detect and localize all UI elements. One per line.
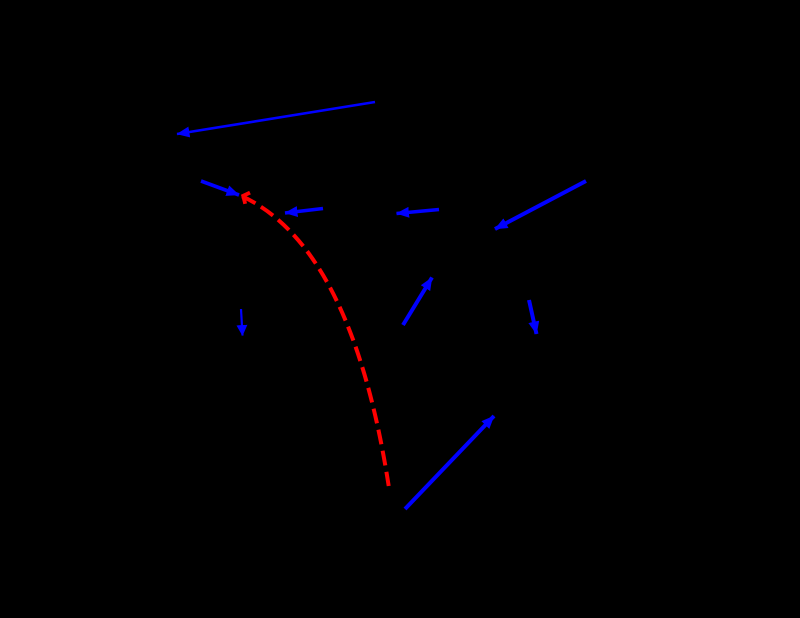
arrow A6 pointing up-right xyxy=(403,278,432,326)
arrow A3 left-pointing middle xyxy=(285,209,323,214)
arrow A5 long diagonal from upper right xyxy=(495,181,586,229)
red dashed curve xyxy=(242,196,389,486)
arrow A9 bottom pointing up-right xyxy=(405,416,494,509)
arrow A1 long top annotation arrow xyxy=(177,102,375,134)
red curve arrowhead xyxy=(243,193,250,204)
arrow A4 left-pointing right of A3 xyxy=(397,210,440,214)
arrow A7 pointing down-right xyxy=(529,300,537,334)
arrow A8 small down arrow xyxy=(241,309,243,336)
arrow A2 pointing at red curve start xyxy=(201,181,239,195)
